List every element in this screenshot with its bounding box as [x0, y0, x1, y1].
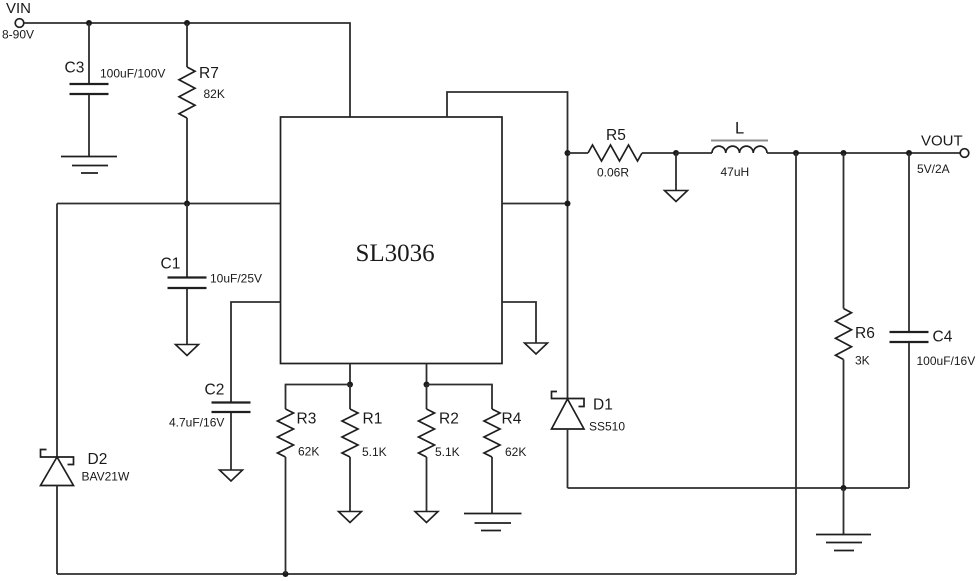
inductor L core line [711, 140, 768, 142]
wire R5 left lead [568, 152, 589, 154]
wire R7 bottom lead [186, 118, 188, 204]
svg-text:R2: R2 [439, 411, 459, 428]
svg-text:R3: R3 [297, 411, 317, 428]
node junction SW/R5 [565, 150, 571, 156]
wire R7 top lead [186, 23, 188, 67]
wire IC bottom pin 1 [349, 364, 351, 385]
svg-text:C1: C1 [161, 256, 181, 273]
label SS510 [589, 420, 625, 434]
wire C1 bottom lead [186, 289, 188, 344]
capacitor C2 [212, 403, 251, 413]
inductor L [712, 146, 767, 153]
resistor R6 [836, 309, 852, 360]
label R1 [363, 411, 383, 428]
label 82K [204, 87, 225, 101]
svg-text:VOUT: VOUT [921, 133, 963, 150]
resistor R3 [278, 409, 294, 457]
wire IC bottom pin 2 [426, 364, 428, 385]
wire IC top pin 2 to SW node [447, 92, 568, 399]
resistor R7 [179, 67, 195, 118]
label VIN [6, 0, 31, 17]
wire node rail to IC left pin 1 [57, 203, 281, 205]
wire C4 bottom lead [908, 343, 910, 488]
label C1 [161, 256, 181, 273]
wire C4 top lead [908, 153, 910, 331]
node junction R6 top [841, 150, 847, 156]
wire D2 to bottom rail [56, 486, 58, 575]
node junction feedback drop [793, 150, 799, 156]
label C3 [65, 60, 85, 77]
wire C3 bottom lead [88, 95, 90, 157]
svg-text:D1: D1 [593, 397, 613, 414]
ground arrow C1 [176, 345, 199, 356]
wire R6 top lead [843, 153, 845, 309]
label BAV21W [82, 470, 130, 484]
label R4 [502, 411, 522, 428]
label C2 [205, 382, 225, 399]
svg-text:8-90V: 8-90V [2, 28, 34, 42]
capacitor C3 [70, 84, 109, 94]
label D1 [593, 397, 613, 414]
resistor R4 [484, 409, 500, 457]
node junction C4 top [906, 150, 912, 156]
wire IC right pin 1 [502, 203, 568, 205]
svg-text:SS510: SS510 [589, 420, 625, 434]
svg-text:VIN: VIN [6, 0, 31, 17]
svg-text:82K: 82K [204, 87, 225, 101]
label R5 [606, 127, 626, 144]
label 5V/2A [917, 162, 950, 176]
svg-text:L: L [735, 120, 744, 138]
wire ground return rail [568, 487, 910, 489]
wire C1 top lead [186, 204, 188, 277]
node junction R3 bottom [283, 571, 289, 577]
svg-text:R1: R1 [363, 411, 383, 428]
svg-text:R5: R5 [606, 127, 626, 144]
wire feedback drop to bottom rail [795, 153, 797, 574]
label 4.7uF/16V [169, 416, 224, 430]
svg-text:5.1K: 5.1K [362, 445, 387, 459]
ground earth output [816, 535, 871, 551]
svg-text:C2: C2 [205, 382, 225, 399]
wire R5 right lead [642, 152, 676, 154]
resistor R2 [419, 409, 435, 457]
ground arrow R1 [339, 512, 362, 523]
svg-text:62K: 62K [298, 445, 319, 459]
wire IC left pin 2 to C2 [231, 302, 281, 402]
op-amp U1 SL3036 box [281, 117, 503, 364]
ground earth C3 [61, 157, 117, 174]
ground arrow C2 [220, 470, 243, 481]
wire bottom rail [57, 573, 796, 575]
wire R4 top lead [427, 385, 493, 410]
label 62K R3 [298, 445, 319, 459]
svg-text:R4: R4 [502, 411, 522, 428]
label 5.1K R1 [362, 445, 387, 459]
wire R4 bottom lead [491, 457, 493, 513]
node junction R6/ground [841, 485, 847, 491]
wire R3 bottom lead [285, 457, 287, 574]
wire R2 top lead [426, 385, 428, 410]
wire node to inductor [676, 152, 712, 154]
label 100uF/16V [917, 354, 976, 368]
label C4 [933, 329, 953, 346]
label SL3036 [356, 240, 435, 267]
wire top rail VIN to IC top pin [24, 23, 350, 117]
node junction R7 top [184, 20, 190, 26]
resistor R5 [588, 145, 642, 161]
resistor R1 [342, 409, 358, 457]
wire R2 bottom lead [426, 457, 428, 511]
node junction SW/pin [565, 201, 571, 207]
wire D1 bottom lead [567, 429, 569, 488]
svg-text:10uF/25V: 10uF/25V [210, 272, 262, 286]
wire C2 bottom lead [230, 413, 232, 470]
capacitor C1 [168, 278, 207, 289]
label R2 [439, 411, 459, 428]
label 5.1K R2 [435, 445, 460, 459]
svg-text:4.7uF/16V: 4.7uF/16V [169, 416, 224, 430]
svg-text:5.1K: 5.1K [435, 445, 460, 459]
label L [735, 120, 744, 138]
label 10uF/25V [210, 272, 262, 286]
node junction R5/L [673, 150, 679, 156]
terminal VOUT [960, 149, 969, 158]
ground arrow IC pin [525, 343, 548, 354]
svg-text:C4: C4 [933, 329, 953, 346]
svg-text:0.06R: 0.06R [597, 166, 629, 180]
svg-text:C3: C3 [65, 60, 85, 77]
ground arrow R5 node [665, 191, 688, 202]
wire ground stub [843, 488, 845, 535]
diode D2 BAV21W [41, 450, 74, 486]
svg-text:R7: R7 [199, 65, 219, 82]
node junction C3 top [86, 20, 92, 26]
svg-text:47uH: 47uH [721, 165, 750, 179]
label VOUT [921, 133, 963, 150]
wire R1 bottom lead [349, 457, 351, 511]
ground earth R4 [464, 514, 522, 531]
capacitor C4 [890, 332, 929, 342]
node junction R1/R3 [347, 382, 353, 388]
svg-text:3K: 3K [855, 354, 870, 368]
label 47uH [721, 165, 750, 179]
label 100uF/100V [100, 67, 165, 81]
diode D1 SS510 [552, 392, 585, 430]
terminal VIN [15, 19, 24, 28]
label 0.06R [597, 166, 629, 180]
wire output rail [767, 152, 960, 154]
svg-text:62K: 62K [505, 445, 526, 459]
label 62K R4 [505, 445, 526, 459]
label R7 [199, 65, 219, 82]
svg-text:100uF/16V: 100uF/16V [917, 354, 976, 368]
svg-text:D2: D2 [88, 451, 108, 468]
label D2 [88, 451, 108, 468]
svg-text:100uF/100V: 100uF/100V [100, 67, 165, 81]
svg-text:5V/2A: 5V/2A [917, 162, 950, 176]
label R3 [297, 411, 317, 428]
label 8-90V [2, 28, 34, 42]
node junction R2/R4 [424, 382, 430, 388]
wire R6 bottom lead [843, 360, 845, 489]
svg-text:BAV21W: BAV21W [82, 470, 130, 484]
wire D2 branch down left side [56, 204, 58, 458]
svg-text:SL3036: SL3036 [356, 240, 435, 267]
node junction R7/C1 [184, 201, 190, 207]
label 3K [855, 354, 870, 368]
wire IC right pin 2 to ground [502, 302, 536, 343]
svg-text:R6: R6 [855, 325, 875, 342]
wire R1 top lead [349, 385, 351, 410]
wire C3 top lead [88, 23, 90, 83]
ground arrow R2 [415, 512, 438, 523]
label R6 [855, 325, 875, 342]
wire stub below R5 node [675, 153, 677, 190]
wire R3 top lead [286, 385, 351, 410]
